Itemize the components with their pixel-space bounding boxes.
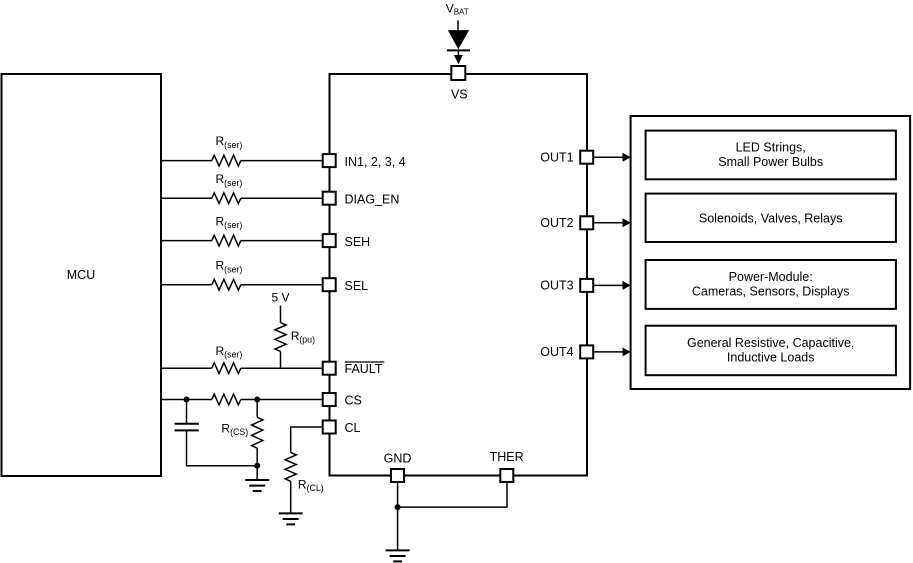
svg-text:DIAG_EN: DIAG_EN xyxy=(345,193,400,207)
pin FAULT (active low) xyxy=(323,362,336,375)
wire R(CS) to bottom node xyxy=(256,448,258,480)
svg-text:OUT4: OUT4 xyxy=(540,345,573,359)
resistor R(ser) on IN1 line xyxy=(212,155,241,166)
resistor R(ser) on DIAG_EN line xyxy=(212,193,241,204)
svg-text:MCU: MCU xyxy=(67,268,95,282)
wire diode to VS with arrowhead xyxy=(457,50,459,57)
svg-text:SEH: SEH xyxy=(345,235,371,249)
load box: LED strings xyxy=(646,131,896,180)
ground symbol below R(CS) xyxy=(245,480,269,491)
wire THER pin to ground net xyxy=(398,483,507,507)
svg-text:Power-Module:: Power-Module: xyxy=(729,270,813,284)
wire OUT3 arrow xyxy=(594,284,623,286)
load box: power module xyxy=(646,260,896,309)
svg-text:OUT3: OUT3 xyxy=(540,279,573,293)
svg-text:5 V: 5 V xyxy=(272,290,290,304)
FAULT overline xyxy=(345,361,385,363)
svg-text:SEL: SEL xyxy=(345,279,369,293)
resistor R(ser) on SEL line xyxy=(212,279,241,290)
wire MCU to IN1 pin xyxy=(161,160,322,162)
svg-text:CL: CL xyxy=(345,421,361,435)
svg-text:VS: VS xyxy=(451,88,468,102)
wire CS node to capacitor xyxy=(186,400,188,424)
junction node GND/THER xyxy=(395,504,401,510)
junction node at R(CS)/capacitor ground xyxy=(254,463,260,469)
pin CS xyxy=(323,393,336,406)
wire OUT1 arrow xyxy=(594,156,623,158)
svg-text:Small Power Bulbs: Small Power Bulbs xyxy=(718,155,823,169)
svg-text:OUT1: OUT1 xyxy=(540,151,573,165)
pin OUT3 xyxy=(580,279,593,292)
wire MCU to FAULT pin xyxy=(161,367,322,369)
pin THER xyxy=(500,469,513,482)
pin IN1,2,3,4 xyxy=(323,154,336,167)
ground symbol below GND xyxy=(386,550,410,561)
pin OUT1 xyxy=(580,151,593,164)
wire MCU to CS pin xyxy=(161,399,322,401)
resistor R(CL) xyxy=(285,453,296,482)
loads outer box xyxy=(631,116,911,389)
svg-text:OUT2: OUT2 xyxy=(540,216,573,230)
svg-text:THER: THER xyxy=(490,450,524,464)
svg-text:FAULT: FAULT xyxy=(345,362,383,376)
svg-text:LED Strings,: LED Strings, xyxy=(736,141,806,155)
svg-text:Solenoids, Valves, Relays: Solenoids, Valves, Relays xyxy=(699,211,843,225)
wire capacitor to bottom net xyxy=(187,431,258,466)
wire MCU to SEH pin xyxy=(161,240,322,242)
pin VS xyxy=(451,66,465,80)
resistor R(ser) on FAULT line xyxy=(212,363,241,374)
svg-text:General Resistive, Capacitive,: General Resistive, Capacitive, xyxy=(687,336,854,350)
svg-text:GND: GND xyxy=(384,452,412,466)
load box: general loads xyxy=(646,326,896,376)
diode D1 (reverse battery protection) xyxy=(449,31,469,49)
svg-text:CS: CS xyxy=(345,394,362,408)
resistor R(pu) xyxy=(275,323,286,352)
junction node on CS line (right) xyxy=(254,397,260,403)
capacitor C(CS) xyxy=(175,424,199,431)
wire VBAT to diode xyxy=(457,20,459,31)
IC U1 box xyxy=(330,74,588,476)
resistor R(ser) on SEH line xyxy=(212,235,241,246)
svg-text:IN1, 2, 3, 4: IN1, 2, 3, 4 xyxy=(345,155,406,169)
pin OUT4 xyxy=(580,345,593,358)
load box: solenoids xyxy=(646,194,896,242)
resistor R(CS) xyxy=(252,417,263,448)
pin CL xyxy=(323,421,336,434)
svg-text:Cameras, Sensors, Displays: Cameras, Sensors, Displays xyxy=(692,285,850,299)
pin SEL xyxy=(323,278,336,291)
junction node on CS line (left) xyxy=(184,397,190,403)
wire GND pin to ground xyxy=(397,483,399,550)
wire OUT2 arrow xyxy=(594,222,623,224)
wire 5V to R(pu) xyxy=(280,306,282,323)
wire OUT4 arrow xyxy=(594,351,623,353)
pin OUT2 xyxy=(580,216,593,229)
pin SEH xyxy=(323,234,336,247)
pin GND xyxy=(391,469,404,482)
wire CL pin to R(CL) xyxy=(291,427,322,453)
pin DIAG_EN xyxy=(323,192,336,205)
svg-text:Inductive Loads: Inductive Loads xyxy=(727,351,815,365)
wire R(CL) to ground xyxy=(290,481,292,513)
resistor (unlabeled) on CS line xyxy=(212,394,241,405)
ground symbol below R(CL) xyxy=(279,513,303,524)
wire CS node down to R(CS) xyxy=(256,400,258,418)
MCU box xyxy=(2,74,162,476)
wire MCU to SEL pin xyxy=(161,284,322,286)
wire R(pu) to FAULT line xyxy=(280,351,282,368)
wire MCU to DIAG_EN pin xyxy=(161,197,322,199)
